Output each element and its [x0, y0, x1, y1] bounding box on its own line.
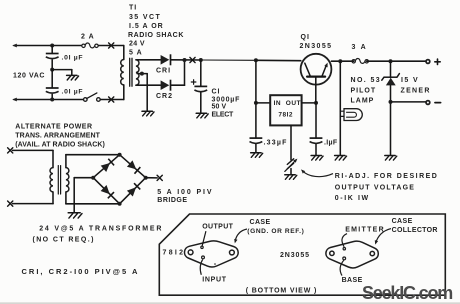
svg-text:2 A: 2 A — [81, 34, 95, 41]
svg-text:3 A: 3 A — [352, 44, 368, 51]
svg-text:5 A I00 PIV: 5 A I00 PIV — [157, 189, 213, 196]
svg-text:ZENER: ZENER — [401, 87, 431, 94]
svg-text:I.5 A OR: I.5 A OR — [129, 23, 164, 30]
svg-text:TI: TI — [129, 5, 137, 12]
svg-text:(GND. OR REF.): (GND. OR REF.) — [247, 228, 304, 235]
svg-text:RI-ADJ. FOR DESIRED: RI-ADJ. FOR DESIRED — [335, 173, 439, 180]
svg-text:INPUT: INPUT — [202, 276, 227, 283]
svg-text:TRANS. ARRANGEMENT: TRANS. ARRANGEMENT — [15, 133, 100, 140]
svg-text:.33µF: .33µF — [264, 139, 288, 146]
svg-text:CRI, CR2-I00 PIV@5 A: CRI, CR2-I00 PIV@5 A — [22, 267, 140, 276]
svg-text:ELECT: ELECT — [212, 111, 234, 118]
svg-text:BASE: BASE — [342, 277, 363, 284]
svg-text:50 V: 50 V — [212, 104, 227, 111]
svg-text:2N3055: 2N3055 — [280, 252, 310, 259]
svg-text:OUTPUT: OUTPUT — [202, 224, 233, 231]
svg-text:IN: IN — [274, 100, 282, 107]
svg-text:SeekIC.com: SeekIC.com — [362, 283, 452, 303]
svg-text:NO. 53: NO. 53 — [351, 77, 382, 84]
svg-text:COLLECTOR: COLLECTOR — [392, 227, 438, 234]
svg-text:.0I µF: .0I µF — [62, 55, 84, 62]
svg-text:2N3055: 2N3055 — [300, 43, 333, 50]
svg-text:35 VCT: 35 VCT — [129, 14, 161, 21]
svg-text:OUTPUT VOLTAGE: OUTPUT VOLTAGE — [335, 184, 415, 191]
svg-text:RADIO SHACK: RADIO SHACK — [128, 32, 184, 39]
svg-text:.0I µF: .0I µF — [62, 89, 84, 96]
svg-text:I5 V: I5 V — [401, 77, 419, 84]
svg-text:78I2: 78I2 — [163, 250, 186, 257]
svg-text:LAMP: LAMP — [351, 98, 375, 105]
svg-text:ALTERNATE POWER: ALTERNATE POWER — [15, 124, 92, 131]
svg-text:CRI: CRI — [156, 68, 171, 75]
svg-text:78I2: 78I2 — [278, 112, 293, 119]
svg-text:OUT: OUT — [286, 100, 301, 107]
svg-text:3000µF: 3000µF — [212, 96, 241, 103]
svg-text:.IµF: .IµF — [324, 139, 338, 146]
svg-text:QI: QI — [301, 34, 310, 41]
svg-text:(AVAIL. AT RADIO SHACK): (AVAIL. AT RADIO SHACK) — [15, 142, 105, 149]
svg-text:0-IK IW: 0-IK IW — [335, 195, 370, 202]
svg-text:CASE: CASE — [250, 219, 271, 226]
svg-text:CR2: CR2 — [156, 93, 173, 100]
svg-text:( BOTTOM VIEW ): ( BOTTOM VIEW ) — [246, 287, 317, 294]
svg-text:BRIDGE: BRIDGE — [157, 197, 187, 204]
svg-text:CI: CI — [212, 89, 221, 96]
svg-text:24 V: 24 V — [129, 41, 145, 48]
svg-text:24 V@5 A TRANSFORMER: 24 V@5 A TRANSFORMER — [39, 225, 163, 232]
svg-text:CASE: CASE — [392, 218, 413, 225]
svg-text:EMITTER: EMITTER — [345, 227, 385, 234]
svg-text:PILOT: PILOT — [351, 87, 377, 94]
svg-text:5 A: 5 A — [129, 49, 143, 56]
svg-text:120 VAC: 120 VAC — [13, 73, 45, 80]
svg-text:(NO CT REQ.): (NO CT REQ.) — [33, 237, 95, 244]
